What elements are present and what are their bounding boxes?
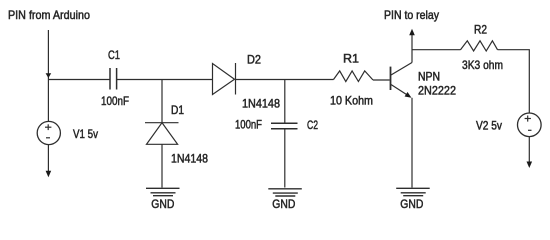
wire: node C down to C2 (284, 80, 286, 124)
wire: R2 to V2 top (498, 50, 530, 113)
svg-text:GND: GND (151, 197, 174, 211)
svg-text:GND: GND (400, 197, 423, 211)
ground: GND under C2 (268, 189, 302, 196)
V2 minus sign (528, 129, 532, 131)
diode D1 triangle (147, 123, 178, 145)
svg-text:PIN from Arduino: PIN from Arduino (8, 8, 90, 22)
svg-text:D1: D1 (171, 103, 184, 117)
svg-text:1N4148: 1N4148 (171, 152, 208, 166)
arrowhead: input signal into node A (46, 73, 52, 78)
svg-text:3K3 ohm: 3K3 ohm (462, 58, 503, 72)
svg-text:100nF: 100nF (235, 118, 262, 132)
ground: GND under D1 (146, 188, 180, 195)
V2 plus sign (525, 116, 531, 122)
V1 minus sign (46, 137, 50, 139)
wire: node A down to V1 (47, 80, 49, 122)
svg-text:10 Kohm: 10 Kohm (330, 94, 373, 108)
wire: collector node to R2 (412, 49, 461, 51)
arrowhead: V2 return (527, 162, 533, 169)
wire: node B down to D1 cathode (161, 80, 163, 123)
voltage source V1 (37, 121, 60, 144)
svg-text:PIN to relay: PIN to relay (384, 8, 439, 22)
wire: C1 to D2 anode (117, 79, 213, 81)
svg-text:C2: C2 (307, 118, 318, 132)
wire: D2 cathode to R1 (236, 79, 334, 81)
arrowhead: PIN to relay output (409, 29, 415, 36)
diode D2 triangle (213, 64, 235, 95)
wire: R1 to Q1 base (373, 79, 390, 81)
capacitor C1 (110, 68, 117, 90)
diode D1 cathode bar (145, 122, 179, 124)
diode D2 cathode bar (235, 63, 237, 95)
wire: V1 bottom lead (47, 145, 49, 171)
svg-text:V2 5v: V2 5v (476, 119, 502, 133)
wire: collector vertical up to PIN to relay (411, 35, 413, 63)
arrowhead: V1 return (46, 171, 52, 178)
ground: GND under emitter (396, 188, 430, 195)
wire: arduino input vertical (47, 30, 49, 80)
svg-text:D2: D2 (247, 53, 261, 67)
capacitor C2 (271, 123, 298, 129)
svg-text:NPN: NPN (418, 70, 440, 84)
wire: node A horizontal to C1 (48, 79, 110, 81)
svg-text:GND: GND (272, 197, 295, 211)
wire: C2 to ground (284, 129, 286, 188)
svg-text:2N2222: 2N2222 (418, 84, 456, 98)
resistor R2 (461, 41, 498, 51)
voltage source V2 (518, 113, 542, 137)
svg-text:100nF: 100nF (101, 94, 129, 108)
svg-text:R2: R2 (474, 23, 487, 37)
svg-text:C1: C1 (108, 48, 120, 62)
transistor Q1 collector diagonal (391, 63, 412, 76)
svg-text:R1: R1 (343, 52, 359, 66)
V1 plus sign (45, 124, 51, 130)
svg-text:1N4148: 1N4148 (242, 97, 280, 111)
wire: D1 anode to ground (161, 144, 163, 187)
transistor Q1 base bar (390, 67, 392, 90)
wire: emitter vertical to ground (411, 98, 413, 188)
svg-text:V1 5v: V1 5v (73, 127, 98, 141)
arrowhead: Q1 emitter (405, 92, 413, 100)
resistor R1 (334, 71, 374, 82)
transistor Q1 emitter diagonal (391, 85, 410, 97)
wire: V2 bottom lead (528, 137, 530, 162)
